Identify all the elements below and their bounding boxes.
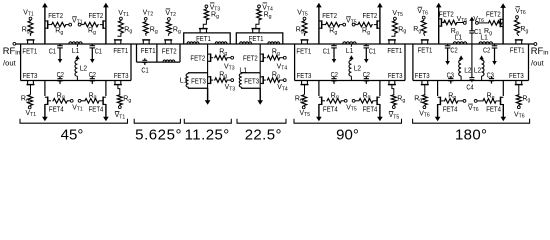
terminal VT6bar bottom-center-left bbox=[463, 100, 466, 103]
wire left edge vertical 180 bbox=[412, 44, 414, 81]
wire L2 stub bbox=[76, 44, 78, 47]
terminal VT6 top-center-right bbox=[476, 22, 479, 25]
wire L2 stub bbox=[350, 44, 352, 47]
inductor L (left main) bbox=[240, 42, 252, 44]
ground arrow bbox=[259, 88, 261, 101]
transistor FET3 (shunt) bbox=[210, 76, 212, 84]
svg-text:C3: C3 bbox=[487, 72, 494, 79]
wire main RF line bbox=[16, 43, 534, 45]
svg-text:FET2: FET2 bbox=[243, 55, 258, 62]
svg-text:C2: C2 bbox=[331, 72, 338, 79]
transistor FET2 (top-left 180) bbox=[441, 18, 443, 27]
terminal VT3 (FET3 gate) bbox=[228, 79, 231, 81]
resistor Rg (top-right bias) bbox=[118, 20, 123, 34]
inductor L1 (left 180) bbox=[453, 42, 467, 44]
svg-text:VT6: VT6 bbox=[417, 8, 428, 16]
svg-text:VT1: VT1 bbox=[26, 110, 37, 118]
svg-text:FET2: FET2 bbox=[363, 13, 378, 20]
inductor L1 loop bbox=[242, 72, 261, 75]
wire shunt rail bbox=[259, 44, 261, 100]
transistor FET2 (top-right) bbox=[102, 20, 104, 29]
wire gate FET3-1 bbox=[30, 85, 32, 94]
wire from node 180b bbox=[478, 22, 488, 24]
wire node 180c bbox=[458, 100, 463, 102]
resistor Rg (FET4 left gate) bbox=[327, 99, 342, 104]
svg-text:L1: L1 bbox=[72, 48, 79, 55]
transistor FET2 (shunt) bbox=[262, 53, 264, 62]
terminal VT6 top-center-left bbox=[463, 22, 466, 25]
resistor Rg (top-right bias 180) bbox=[515, 19, 520, 34]
svg-text:FET1: FET1 bbox=[22, 48, 37, 55]
resistor Rg (bottom-right bias) bbox=[117, 94, 122, 106]
wire raised bypass line bbox=[236, 33, 282, 44]
svg-text:L1: L1 bbox=[455, 35, 462, 42]
resistor Rg (FET2 left gate) bbox=[51, 22, 66, 27]
svg-text:FET3: FET3 bbox=[191, 78, 206, 85]
terminal VT6bar bottom-right bbox=[517, 106, 520, 109]
svg-text:VT1: VT1 bbox=[118, 10, 129, 18]
bracket 45 deg bbox=[20, 119, 128, 124]
svg-text:C3: C3 bbox=[447, 72, 454, 79]
resistor Rg (FET2 right gate) bbox=[83, 22, 98, 27]
svg-text:/out: /out bbox=[531, 58, 545, 67]
wire gate FET1-1 bbox=[30, 34, 32, 36]
svg-text:/out: /out bbox=[3, 58, 17, 67]
resistor Rg (top-left bias) bbox=[28, 20, 33, 34]
inductor L1 (right 180) bbox=[479, 42, 493, 44]
wire rail down-arrow left bbox=[318, 81, 320, 97]
arrowhead L2b top bbox=[479, 55, 484, 59]
arrowhead L2 top bbox=[75, 55, 80, 59]
terminal VT5bar (top-center-left) bbox=[343, 23, 346, 26]
svg-text:FET4: FET4 bbox=[363, 106, 378, 113]
svg-text:FET3: FET3 bbox=[297, 73, 312, 80]
svg-text:VT6: VT6 bbox=[419, 110, 430, 118]
transistor FET4 (bottom-left) bbox=[321, 97, 323, 106]
terminal VT1 bottom-left bbox=[28, 106, 31, 109]
inductor L2 (left shunt 180) bbox=[460, 58, 462, 60]
resistor Rg (FET2 right gate 180) bbox=[488, 21, 503, 26]
wire left edge vertical bbox=[294, 44, 296, 81]
terminal VT4bar top bbox=[258, 5, 261, 8]
svg-text:FET1: FET1 bbox=[296, 48, 311, 55]
transistor FET1 (bypass) bbox=[199, 28, 208, 30]
transistor FET1 (right 180) bbox=[515, 39, 523, 41]
svg-text:VT2: VT2 bbox=[143, 10, 154, 18]
transistor FET2 (top-left) bbox=[47, 20, 49, 29]
wire rail down-arrow right bbox=[379, 81, 381, 97]
terminal VT6bar bottom-center-right bbox=[474, 100, 477, 103]
resistor Rg (FET2 left gate) bbox=[325, 22, 340, 27]
wire rail up-arrow left bbox=[44, 6, 46, 44]
transistor FET2 (top-right 180) bbox=[499, 19, 501, 28]
transistor FET4 (bottom-right) bbox=[376, 97, 378, 106]
terminal VT5 top-left bbox=[303, 17, 306, 20]
terminal VT5 bottom-center-right bbox=[352, 99, 355, 102]
svg-text:FET1: FET1 bbox=[141, 48, 156, 55]
resistor Rg (bottom-left bias 180) bbox=[422, 94, 427, 106]
svg-text:90°: 90° bbox=[336, 127, 359, 144]
wire gate FET3-2 180 bbox=[518, 85, 520, 94]
svg-text:L1: L1 bbox=[180, 78, 188, 85]
resistor Rg (FET4 right gate) bbox=[84, 99, 99, 104]
capacitor C2 (left) bbox=[333, 76, 335, 78]
inductor L (right main) bbox=[215, 42, 227, 44]
wire rail down-arrow right bbox=[105, 81, 107, 97]
wire rail down-arrow left bbox=[44, 81, 46, 97]
svg-text:FET4: FET4 bbox=[49, 106, 64, 113]
resistor Rg (top-right bias) bbox=[392, 20, 397, 34]
transistor FET2 (series) bbox=[164, 39, 172, 41]
wire bypass lower line bbox=[137, 61, 181, 63]
svg-text:FET1: FET1 bbox=[113, 48, 128, 55]
svg-text:FET2: FET2 bbox=[162, 48, 177, 55]
terminal VT2bar bbox=[168, 18, 171, 21]
svg-text:VT6: VT6 bbox=[514, 111, 525, 119]
inductor L1 loop bbox=[189, 72, 208, 75]
svg-text:C2: C2 bbox=[483, 48, 490, 55]
transistor FET1 (right series) bbox=[388, 39, 396, 41]
svg-text:L2: L2 bbox=[474, 67, 481, 74]
wire gate FET3-2 bbox=[118, 85, 120, 94]
terminal VT4 (FET2 gate) bbox=[280, 57, 283, 59]
capacitor C1 (right shunt) bbox=[365, 44, 367, 46]
capacitor C1 (mid 180) bbox=[469, 30, 474, 32]
svg-text:L1: L1 bbox=[239, 67, 247, 74]
inductor L (left main) bbox=[187, 42, 199, 44]
svg-text:5.625°: 5.625° bbox=[135, 127, 182, 144]
capacitor C1 (series bypass) bbox=[144, 58, 146, 60]
wire shunt rail bbox=[207, 44, 209, 100]
wire gate FET3-1 180 bbox=[424, 85, 426, 94]
svg-text:VT3: VT3 bbox=[225, 84, 236, 92]
arrowhead L2a top bbox=[459, 55, 464, 59]
resistor Rg (FET4 left gate) bbox=[53, 99, 68, 104]
svg-text:FET4: FET4 bbox=[89, 106, 104, 113]
bracket 90 deg bbox=[294, 119, 402, 124]
wire right edge vertical 180 bbox=[528, 44, 530, 81]
svg-text:VT6: VT6 bbox=[515, 8, 526, 16]
bracket 22.5 deg bbox=[237, 119, 286, 124]
wire lower line bbox=[295, 80, 405, 82]
wire rail up-arrow right 180 bbox=[502, 7, 504, 44]
transistor FET3 (right series) bbox=[114, 84, 122, 86]
resistor Rg (bottom-left bias) bbox=[302, 94, 307, 106]
resistor Rg (FET2 left gate 180) bbox=[443, 20, 458, 25]
svg-text:FET3: FET3 bbox=[114, 73, 129, 80]
resistor Rg (VT2) bbox=[143, 21, 148, 34]
capacitor C4 (mid 180) bbox=[471, 44, 473, 78]
inductor L2 (shunt) bbox=[350, 59, 352, 60]
wire to node b bbox=[342, 100, 344, 102]
capacitor C2 (right shunt 180) bbox=[494, 44, 496, 46]
svg-text:L2: L2 bbox=[80, 66, 87, 73]
wire gate FET1-1 bbox=[304, 34, 306, 36]
resistor Rg (top bias) bbox=[204, 8, 209, 20]
transistor FET3 (right series) bbox=[388, 84, 396, 86]
wire right edge vertical bbox=[404, 44, 406, 81]
resistor Rg (FET3 gate) bbox=[267, 78, 281, 83]
wire bias to gate bbox=[203, 21, 206, 27]
svg-text:FET1: FET1 bbox=[418, 48, 433, 55]
svg-text:C2: C2 bbox=[57, 72, 64, 79]
wire lower line bbox=[21, 80, 131, 82]
inductor L (right main) bbox=[268, 42, 280, 44]
wire VT2bar to gate bbox=[167, 34, 170, 36]
wire from node bbox=[355, 24, 357, 26]
svg-text:FET2: FET2 bbox=[190, 55, 205, 62]
wire to node 180a bbox=[458, 22, 464, 24]
terminal VT1 top-left bbox=[29, 17, 32, 20]
terminal VT3 (FET2 gate) bbox=[228, 57, 231, 59]
svg-text:VT5: VT5 bbox=[346, 105, 357, 113]
svg-text:VT5: VT5 bbox=[300, 110, 311, 118]
svg-text:FET2: FET2 bbox=[89, 13, 104, 20]
arrowhead C2 left bbox=[445, 61, 450, 65]
svg-text:VT3: VT3 bbox=[224, 63, 235, 71]
svg-text:VT4: VT4 bbox=[277, 84, 288, 92]
svg-text:FET1: FET1 bbox=[387, 48, 402, 55]
terminal VT5bar bottom-right bbox=[392, 106, 395, 109]
svg-text:VT5: VT5 bbox=[297, 10, 308, 18]
resistor Rg (FET3 gate) bbox=[214, 78, 228, 83]
svg-text:VT6: VT6 bbox=[468, 105, 479, 113]
resistor Rg (bottom-left bias) bbox=[28, 94, 33, 106]
svg-text:VT5: VT5 bbox=[392, 10, 403, 18]
transistor FET1 (bypass) bbox=[252, 28, 261, 30]
wire to node b bbox=[68, 100, 70, 102]
svg-text:C1: C1 bbox=[323, 48, 330, 55]
terminal VT4 (FET3 gate) bbox=[280, 79, 283, 81]
svg-text:C1: C1 bbox=[49, 48, 56, 55]
resistor Rg (VT2bar) bbox=[166, 21, 171, 34]
transistor FET2 (top-left) bbox=[321, 20, 323, 29]
wire to node bbox=[66, 24, 68, 26]
capacitor C2 (right) bbox=[365, 76, 367, 78]
wire gate FET1-2 bbox=[118, 34, 121, 36]
wire rail down-arrow left 180 bbox=[437, 81, 439, 97]
resistor Rg (FET2 gate) bbox=[214, 55, 228, 60]
transistor FET4 (bottom-left) bbox=[47, 97, 49, 106]
transistor FET2 (top-right) bbox=[376, 20, 378, 29]
bracket 5.625 deg bbox=[134, 119, 180, 124]
wire lower line 180 bbox=[413, 80, 529, 82]
arrow mid bias bbox=[471, 20, 473, 31]
svg-text:C1: C1 bbox=[95, 48, 102, 55]
arrowhead C1 left bbox=[58, 59, 63, 63]
terminal VT5 bottom-center-left bbox=[344, 99, 347, 102]
capacitor C1 (left shunt) bbox=[59, 44, 61, 46]
terminal VT1 bottom-center-right bbox=[78, 99, 81, 102]
terminal VT5 bottom-left bbox=[302, 106, 305, 109]
terminal VT6bar top-left bbox=[422, 16, 425, 19]
svg-text:FET4: FET4 bbox=[323, 106, 338, 113]
inductor L2 (shunt) bbox=[76, 59, 78, 60]
wire node 180d bbox=[477, 100, 482, 102]
transistor FET4 (bottom-left 180) bbox=[439, 97, 441, 106]
svg-text:FET3: FET3 bbox=[388, 73, 403, 80]
svg-text:FET3: FET3 bbox=[23, 73, 38, 80]
terminal VT1 top-right bbox=[120, 17, 123, 20]
wire bypass mid vertical bbox=[156, 44, 158, 62]
terminal VT6bar top-right bbox=[516, 16, 519, 19]
inductor L2 (right shunt 180) bbox=[481, 58, 483, 60]
transistor FET3 (right 180) bbox=[515, 84, 523, 86]
svg-text:C1: C1 bbox=[369, 48, 376, 55]
svg-text:VT2: VT2 bbox=[165, 10, 176, 18]
wire from node b bbox=[355, 100, 358, 102]
svg-text:FET2: FET2 bbox=[439, 12, 454, 19]
transistor FET1 (left 180) bbox=[421, 39, 429, 41]
svg-text:FET3: FET3 bbox=[244, 78, 259, 85]
svg-text:VT6: VT6 bbox=[457, 16, 468, 24]
transistor FET3 (shunt) bbox=[262, 76, 264, 84]
wire bypass left vertical bbox=[136, 44, 138, 62]
resistor Rg (top bias) bbox=[257, 8, 262, 20]
inductor L1 bbox=[69, 42, 82, 44]
wire gate FET1-2 bbox=[392, 34, 395, 36]
wire from node b bbox=[81, 100, 84, 102]
svg-text:VT1: VT1 bbox=[115, 112, 126, 120]
transistor FET3 (left 180) bbox=[421, 84, 429, 86]
svg-text:C2: C2 bbox=[450, 48, 457, 55]
capacitor C3 (right 180) bbox=[491, 76, 493, 78]
terminal VT3bar top bbox=[205, 5, 208, 8]
terminal VT5bar (top-center-right) bbox=[352, 23, 355, 26]
terminal VT6 bottom-left bbox=[423, 106, 426, 109]
wire VT2 to gate bbox=[145, 34, 148, 36]
terminal RFin/out left bbox=[13, 42, 16, 45]
svg-text:VT1: VT1 bbox=[23, 10, 34, 18]
wire bypass right vertical bbox=[179, 44, 181, 62]
wire to node bbox=[340, 24, 342, 26]
bracket 11.25 deg bbox=[184, 119, 231, 124]
resistor Rg (FET2 right gate) bbox=[357, 22, 372, 27]
wire gate FET1-2 180 bbox=[517, 34, 519, 36]
svg-text:VT5: VT5 bbox=[389, 112, 400, 120]
svg-text:VT4: VT4 bbox=[277, 63, 288, 71]
wire gate FET1-1 180 bbox=[424, 34, 425, 36]
terminal VT1bar (top-center-left) bbox=[69, 23, 72, 26]
svg-text:FET4: FET4 bbox=[443, 106, 458, 113]
svg-text:L2: L2 bbox=[464, 67, 471, 74]
terminal VT2 bbox=[144, 17, 147, 20]
capacitor C3 (left 180) bbox=[450, 76, 452, 78]
transistor FET1 (series) bbox=[142, 39, 150, 41]
terminal RFin/out right bbox=[534, 43, 537, 46]
svg-text:45°: 45° bbox=[61, 127, 84, 144]
capacitor C1 (left shunt) bbox=[333, 44, 335, 46]
terminal VT1bar bottom-right bbox=[118, 106, 121, 109]
wire bias to gate bbox=[256, 21, 259, 27]
resistor Rg (FET4 right gate 180) bbox=[482, 99, 497, 104]
capacitor C1 (right shunt) bbox=[91, 44, 93, 46]
svg-text:FET3: FET3 bbox=[415, 73, 430, 80]
inductor L1 bbox=[343, 42, 356, 44]
terminal VT1 bottom-center-left bbox=[70, 99, 73, 102]
svg-text:VT1: VT1 bbox=[72, 105, 83, 113]
transistor FET4 (bottom-right 180) bbox=[500, 97, 502, 106]
svg-text:FET3: FET3 bbox=[509, 73, 524, 80]
svg-text:C4: C4 bbox=[466, 85, 473, 92]
capacitor C2 (left) bbox=[59, 76, 61, 78]
svg-text:11.25°: 11.25° bbox=[185, 127, 230, 144]
resistor Rg (FET2 gate) bbox=[267, 55, 281, 60]
resistor Rg (top-left bias) bbox=[302, 20, 307, 34]
arrowhead C2 right bbox=[492, 61, 497, 65]
wire rail down-arrow right 180 bbox=[502, 81, 504, 97]
transistor FET4 (bottom-right) bbox=[102, 97, 104, 106]
wire from node bbox=[81, 24, 83, 26]
svg-text:L2: L2 bbox=[354, 66, 361, 73]
resistor Rg (FET4 left gate 180) bbox=[444, 99, 459, 104]
arrowhead L2 top bbox=[349, 55, 354, 59]
transistor FET1 (right series) bbox=[114, 39, 122, 41]
svg-text:180°: 180° bbox=[455, 126, 487, 143]
wire rail up-arrow left 180 bbox=[438, 6, 440, 44]
transistor FET2 (shunt) bbox=[210, 53, 212, 62]
transistor FET3 (left series) bbox=[27, 84, 35, 86]
wire rail up-arrow right bbox=[105, 6, 107, 44]
svg-text:FET4: FET4 bbox=[486, 106, 501, 113]
arrowhead C1 left bbox=[332, 59, 337, 63]
bracket 180 deg bbox=[413, 119, 530, 124]
svg-text:C2: C2 bbox=[363, 72, 370, 79]
arrowhead C1 right bbox=[364, 59, 369, 63]
resistor Rg (bottom-right bias) bbox=[391, 94, 396, 106]
wire left edge vertical bbox=[20, 44, 22, 81]
svg-text:22.5°: 22.5° bbox=[245, 127, 282, 144]
transistor FET1 (left series) bbox=[27, 39, 35, 41]
wire rail up-arrow right bbox=[379, 6, 381, 44]
svg-text:FET2: FET2 bbox=[322, 13, 337, 20]
wire rail up-arrow left bbox=[318, 6, 320, 44]
ground arrow bbox=[207, 88, 209, 101]
arrowhead C1 right bbox=[90, 59, 95, 63]
svg-text:FET1: FET1 bbox=[510, 48, 525, 55]
svg-text:C2: C2 bbox=[89, 72, 96, 79]
transistor FET3 (left series) bbox=[301, 84, 309, 86]
resistor Rg (bottom-right bias 180) bbox=[516, 94, 521, 106]
wire gate FET3-2 bbox=[392, 85, 394, 94]
svg-text:C1: C1 bbox=[141, 67, 148, 74]
svg-text:L1: L1 bbox=[480, 35, 487, 42]
resistor Rg (top-left bias 180) bbox=[421, 20, 426, 34]
inductor L (series bypass) bbox=[163, 60, 175, 62]
transistor FET1 (left series) bbox=[301, 39, 309, 41]
terminal VT5 top-right bbox=[394, 17, 397, 20]
svg-text:FET2: FET2 bbox=[48, 13, 63, 20]
resistor Rg (FET4 right gate) bbox=[358, 99, 373, 104]
wire raised bypass line bbox=[184, 33, 231, 44]
wire right edge vertical bbox=[130, 44, 132, 81]
wire gate FET3-1 bbox=[304, 85, 306, 94]
svg-text:FET2: FET2 bbox=[486, 12, 501, 19]
capacitor C2 (right) bbox=[91, 76, 93, 78]
svg-text:L1: L1 bbox=[346, 48, 353, 55]
terminal VT1bar (top-center-right) bbox=[78, 23, 81, 26]
capacitor C2 (left shunt 180) bbox=[447, 44, 449, 46]
